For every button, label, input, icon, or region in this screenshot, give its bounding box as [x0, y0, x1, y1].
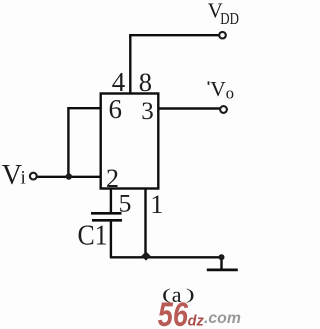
- svg-text:2: 2: [106, 164, 119, 193]
- svg-text:1: 1: [150, 189, 163, 219]
- svg-text:C1: C1: [78, 220, 108, 251]
- svg-text:.com: .com: [204, 310, 241, 327]
- svg-text:5: 5: [119, 189, 132, 218]
- svg-text:56: 56: [158, 295, 189, 329]
- svg-text:dz: dz: [188, 313, 205, 329]
- svg-text:4: 4: [112, 67, 126, 97]
- svg-text:V: V: [2, 160, 22, 191]
- svg-text:o: o: [226, 84, 234, 103]
- svg-text:6: 6: [109, 94, 123, 124]
- svg-text:8: 8: [139, 67, 152, 97]
- svg-text:i: i: [21, 167, 26, 188]
- svg-text:V: V: [210, 77, 226, 101]
- svg-text:DD: DD: [220, 10, 239, 28]
- svg-text:3: 3: [141, 98, 154, 125]
